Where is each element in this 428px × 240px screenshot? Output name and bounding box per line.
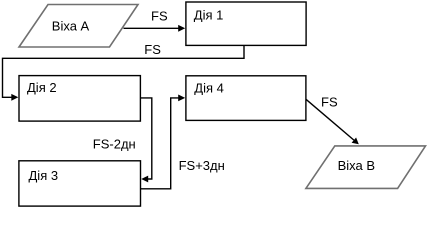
arrowhead into Дія 2 bbox=[11, 94, 18, 101]
connector Віха A to Дія 1 (wire) bbox=[124, 27, 180, 29]
svg-text:Віха B: Віха B bbox=[338, 158, 375, 173]
connector Дія 1 to Дія 2 (wire) bbox=[3, 45, 245, 97]
arrowhead into Дія 4 bbox=[178, 95, 185, 102]
milestone Віха B (parallelogram) bbox=[306, 146, 426, 189]
task box Дія 2 bbox=[19, 76, 140, 122]
connector Дія 3 to Дія 4 (wire) bbox=[141, 98, 180, 189]
arrowhead into Віха B bbox=[352, 138, 359, 145]
task box Дія 3 bbox=[19, 161, 141, 206]
svg-text:Дія 4: Дія 4 bbox=[194, 80, 224, 95]
svg-text:FS: FS bbox=[151, 8, 168, 23]
arrowhead into Дія 3 bbox=[141, 176, 148, 183]
svg-text:Дія 1: Дія 1 bbox=[194, 8, 224, 23]
svg-text:Дія 3: Дія 3 bbox=[29, 168, 59, 183]
svg-text:Віха A: Віха A bbox=[52, 19, 90, 34]
svg-text:FS: FS bbox=[321, 95, 338, 110]
svg-text:FS: FS bbox=[144, 42, 161, 57]
task box Дія 1 bbox=[186, 2, 306, 45]
svg-text:Дія 2: Дія 2 bbox=[27, 80, 57, 95]
task box Дія 4 bbox=[186, 76, 306, 121]
arrowhead into Дія 1 bbox=[178, 25, 185, 32]
milestone Віха A (parallelogram) bbox=[19, 5, 138, 48]
svg-text:FS+3дн: FS+3дн bbox=[179, 158, 225, 173]
svg-text:FS-2дн: FS-2дн bbox=[93, 136, 136, 151]
connector Дія 2 to Дія 3 (wire) bbox=[140, 98, 151, 179]
connector Дія 4 to Віха B (wire) bbox=[306, 99, 354, 140]
